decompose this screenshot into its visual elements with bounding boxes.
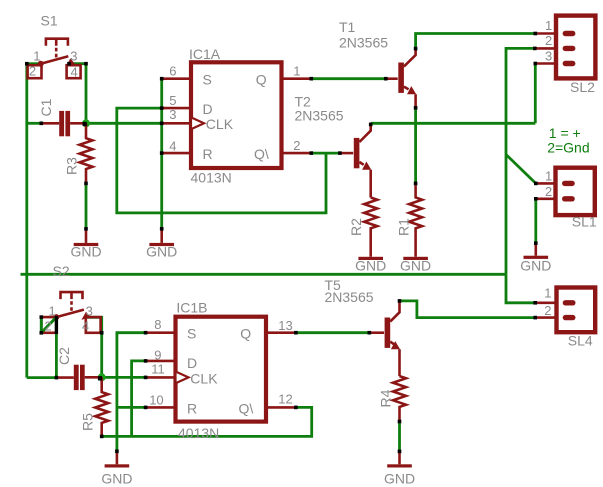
svg-text:8: 8 bbox=[154, 317, 161, 332]
svg-text:2: 2 bbox=[45, 318, 52, 333]
pin numbers S2 bbox=[45, 304, 93, 334]
ground under IC1B S/R net bbox=[101, 451, 132, 486]
ground under R1 bbox=[400, 257, 431, 274]
wire SL2 pin2 vertical bbox=[506, 48, 535, 274]
pin numbers IC1A bbox=[169, 64, 300, 154]
wire IC1A Q\ to T2 base bbox=[311, 152, 340, 155]
pin numbers S1 bbox=[29, 48, 78, 79]
svg-text:4013N: 4013N bbox=[191, 170, 232, 186]
svg-text:GND: GND bbox=[384, 470, 415, 486]
svg-text:D: D bbox=[203, 101, 213, 117]
svg-text:1: 1 bbox=[49, 304, 56, 319]
resistor R4 bbox=[393, 376, 406, 421]
svg-text:2: 2 bbox=[544, 303, 551, 318]
wire IC1A Q to T1 base bbox=[311, 77, 386, 80]
svg-text:3: 3 bbox=[70, 48, 77, 63]
wire T1 emitter to R1 bbox=[414, 108, 417, 184]
svg-text:2=Gnd: 2=Gnd bbox=[547, 140, 589, 156]
svg-text:R2: R2 bbox=[348, 218, 364, 236]
connector SL2 bbox=[536, 16, 595, 95]
ground under R2 bbox=[355, 257, 386, 274]
wire S1 pin3 to C1 junction bbox=[69, 64, 86, 124]
wire C1 left stub bbox=[27, 122, 43, 125]
svg-text:R1: R1 bbox=[395, 218, 411, 236]
wire IC1A S/R to GND bbox=[160, 79, 163, 229]
svg-text:6: 6 bbox=[169, 64, 176, 79]
svg-text:SL2: SL2 bbox=[570, 79, 595, 95]
svg-text:1: 1 bbox=[545, 18, 552, 33]
svg-text:C1: C1 bbox=[38, 98, 54, 116]
svg-text:1: 1 bbox=[545, 169, 552, 184]
svg-text:GND: GND bbox=[520, 258, 551, 274]
wire R4 bottom to GND bbox=[398, 422, 401, 452]
svg-text:12: 12 bbox=[278, 391, 292, 406]
wire diagonal to SL1 pin1 bbox=[506, 155, 536, 184]
resistor R5 bbox=[95, 377, 108, 436]
wire S2 net long horizontal bbox=[21, 273, 507, 276]
wire IC1A D feedback bbox=[117, 108, 326, 213]
wire T1 collector to SL2 pin1 bbox=[416, 34, 536, 49]
svg-text:GND: GND bbox=[146, 244, 177, 260]
svg-text:10: 10 bbox=[149, 393, 163, 408]
wire C1 junction to IC1A CLK bbox=[86, 122, 162, 125]
pin end dots bbox=[25, 32, 538, 454]
pin numbers SL4 bbox=[544, 286, 551, 318]
svg-text:4: 4 bbox=[71, 64, 78, 79]
wire S1 pin1 left bbox=[27, 62, 41, 65]
svg-text:SL4: SL4 bbox=[568, 333, 593, 349]
wire T2 collector to SL2 pin3 bbox=[371, 64, 536, 124]
svg-text:2N3565: 2N3565 bbox=[339, 35, 388, 51]
svg-text:GND: GND bbox=[101, 470, 132, 486]
svg-text:CLK: CLK bbox=[190, 370, 218, 386]
resistor R1 bbox=[409, 183, 422, 256]
wire C2 junction to IC1B CLK bbox=[102, 376, 146, 379]
svg-text:3: 3 bbox=[169, 107, 176, 122]
svg-text:IC1B: IC1B bbox=[176, 300, 207, 316]
wire IC1B R pin bbox=[117, 406, 146, 409]
flip-flop IC1B box bbox=[146, 317, 296, 422]
transistor T1 bbox=[386, 49, 416, 108]
svg-text:9: 9 bbox=[154, 347, 161, 362]
wire IC1B D feedback drop bbox=[132, 361, 146, 437]
svg-text:5: 5 bbox=[169, 93, 176, 108]
svg-text:SL1: SL1 bbox=[572, 214, 597, 230]
svg-text:D: D bbox=[187, 355, 197, 371]
wire IC1B Q\ feedback to R5 bbox=[102, 407, 312, 436]
switch S1 bbox=[28, 39, 81, 78]
svg-text:GND: GND bbox=[400, 258, 431, 274]
junction C1-R3-CLK bbox=[82, 119, 90, 127]
ground under R3 bbox=[70, 229, 101, 260]
junction C2-R5-CLK bbox=[98, 373, 106, 381]
svg-text:13: 13 bbox=[278, 318, 292, 333]
wire IC1B S/R to GND bbox=[117, 333, 146, 452]
ground under R4 bbox=[384, 451, 415, 486]
svg-text:2: 2 bbox=[293, 138, 300, 153]
pin numbers SL1 bbox=[545, 169, 552, 199]
wire S2 pin2 triangle bbox=[41, 317, 56, 333]
svg-text:1: 1 bbox=[544, 286, 551, 301]
switch S2 bbox=[40, 292, 101, 335]
svg-text:2: 2 bbox=[545, 33, 552, 48]
svg-text:S1: S1 bbox=[41, 12, 58, 28]
svg-text:CLK: CLK bbox=[206, 116, 234, 132]
resistor R3 bbox=[80, 123, 93, 183]
svg-text:1: 1 bbox=[293, 64, 300, 79]
wire T5 collector to SL4 pin2 bbox=[400, 301, 536, 318]
pin numbers SL2 bbox=[545, 18, 552, 64]
svg-text:Q: Q bbox=[256, 72, 267, 88]
op-amp U1? no: IC1A flip-flop box bbox=[162, 62, 312, 168]
capacitor C2 bbox=[56, 365, 101, 390]
svg-text:R: R bbox=[203, 146, 213, 162]
svg-text:2N3565: 2N3565 bbox=[295, 107, 344, 123]
svg-text:4013N: 4013N bbox=[178, 425, 219, 441]
svg-text:GND: GND bbox=[70, 244, 101, 260]
wire to SL4 pin1 bbox=[506, 274, 535, 303]
wire R3 bottom to GND bbox=[85, 183, 88, 228]
svg-text:S: S bbox=[187, 326, 196, 342]
svg-text:2: 2 bbox=[29, 63, 36, 78]
svg-text:Q\: Q\ bbox=[239, 400, 254, 416]
wire IC1B Q to T5 base bbox=[296, 331, 369, 334]
svg-text:2N3565: 2N3565 bbox=[325, 289, 374, 305]
capacitor C1 bbox=[42, 111, 86, 136]
svg-text:IC1A: IC1A bbox=[189, 46, 221, 62]
svg-text:R4: R4 bbox=[378, 389, 394, 407]
svg-text:C2: C2 bbox=[56, 347, 72, 365]
wire C2 left horizontal bbox=[27, 376, 57, 379]
svg-text:11: 11 bbox=[151, 361, 165, 376]
svg-text:R3: R3 bbox=[64, 157, 80, 175]
wire S2 pin3 to C2 junction bbox=[86, 317, 102, 377]
svg-text:Q\: Q\ bbox=[254, 146, 269, 162]
svg-text:R5: R5 bbox=[80, 413, 96, 431]
svg-text:1: 1 bbox=[33, 48, 40, 63]
svg-text:3: 3 bbox=[86, 304, 93, 319]
connector SL4 bbox=[535, 288, 595, 349]
wire SL1 pin2 to GND bbox=[534, 199, 537, 243]
wire S2 pin2 to C2 bbox=[55, 333, 58, 378]
wire left vertical S1 to C2 bbox=[25, 64, 28, 378]
ground under IC1A S/R net bbox=[146, 229, 177, 260]
svg-text:4: 4 bbox=[82, 318, 89, 333]
connector SL1 bbox=[536, 168, 597, 230]
ground under SL1 pin2 bbox=[520, 243, 551, 273]
svg-text:3: 3 bbox=[545, 49, 552, 64]
svg-text:2: 2 bbox=[545, 184, 552, 199]
svg-text:S: S bbox=[203, 72, 212, 88]
svg-text:T1: T1 bbox=[339, 19, 356, 35]
svg-text:S2: S2 bbox=[53, 263, 70, 279]
svg-text:Q: Q bbox=[240, 326, 251, 342]
transistor T5 bbox=[369, 301, 400, 376]
resistor R2 bbox=[364, 198, 377, 257]
svg-text:R: R bbox=[187, 400, 197, 416]
pin numbers IC1B bbox=[149, 317, 293, 408]
transistor T2 bbox=[340, 123, 371, 197]
svg-text:GND: GND bbox=[355, 258, 386, 274]
svg-text:4: 4 bbox=[169, 138, 176, 153]
